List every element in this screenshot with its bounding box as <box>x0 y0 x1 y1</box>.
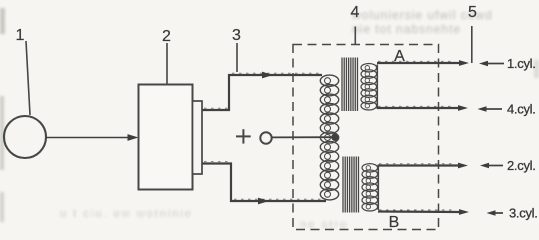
primary winding (center-tapped coil) <box>320 75 338 200</box>
wire B top output <box>378 163 468 169</box>
output 3.cyl label arrow <box>487 206 538 221</box>
svg-text:4: 4 <box>351 4 360 21</box>
output 1.cyl label arrow <box>479 56 536 71</box>
svg-text:3: 3 <box>232 27 241 44</box>
label 2 <box>162 28 171 85</box>
label 3 <box>232 27 241 72</box>
junction dot center tap <box>331 133 339 141</box>
output 4.cyl label arrow <box>478 102 536 117</box>
label A <box>394 48 405 65</box>
center tap wire <box>272 136 334 138</box>
secondary winding A <box>361 63 377 110</box>
label 4 <box>351 4 360 44</box>
secondary winding B <box>362 164 378 211</box>
label 5 <box>468 4 477 63</box>
wire bottom: tab to primary bottom <box>202 162 326 205</box>
svg-text:2: 2 <box>162 28 171 45</box>
wire 3 top: tab to primary top <box>202 72 322 110</box>
core A (laminated core hatch) <box>342 58 357 112</box>
svg-text:5: 5 <box>468 4 477 21</box>
svg-text:4.cyl.: 4.cyl. <box>507 102 536 117</box>
control unit 2 (box) <box>139 85 193 190</box>
supply terminal circle <box>260 132 271 143</box>
output 2.cyl label arrow <box>480 158 536 173</box>
sensor 1 (circle) <box>4 116 46 158</box>
label 1 <box>16 27 30 115</box>
wire A top output <box>377 60 469 66</box>
svg-text:1: 1 <box>16 27 25 44</box>
wire from 1 to 2 with arrow <box>46 134 139 141</box>
svg-text:3.cyl.: 3.cyl. <box>509 206 538 221</box>
plus terminal <box>236 129 251 143</box>
wire A bottom output <box>377 105 468 111</box>
label B <box>389 214 400 231</box>
svg-text:1.cyl.: 1.cyl. <box>507 56 536 71</box>
svg-text:u t ciu. ew wotninie: u t ciu. ew wotninie <box>60 208 193 220</box>
dashed enclosure 4 <box>293 45 439 230</box>
svg-text:B: B <box>389 214 400 231</box>
svg-text:nie tot nabsnehte: nie tot nabsnehte <box>352 22 461 36</box>
core B (laminated core hatch) <box>343 157 358 213</box>
svg-text:2.cyl.: 2.cyl. <box>507 158 536 173</box>
wire B bottom output <box>378 209 469 215</box>
connector tab on box 2 <box>193 101 203 174</box>
